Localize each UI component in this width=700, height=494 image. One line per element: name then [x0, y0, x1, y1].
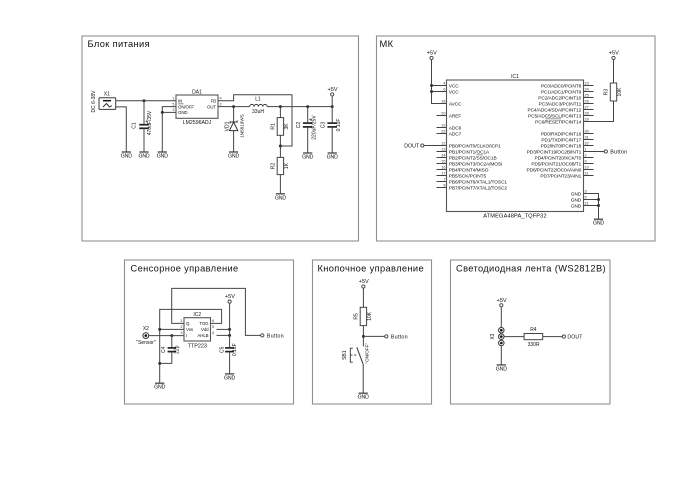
svg-text:220uF/25V: 220uF/25V [311, 115, 317, 140]
IC1 pin 27 PC4/ADC4/SDA/PCINT12 [527, 105, 593, 113]
svg-text:18: 18 [441, 99, 445, 103]
svg-text:6: 6 [443, 87, 445, 91]
svg-text:TTP223: TTP223 [188, 343, 207, 349]
IC1 pin 31 PD1/TXD/PCINT17 [541, 135, 593, 143]
svg-text:+5V: +5V [225, 294, 235, 300]
junction FB divider [279, 145, 282, 148]
wire X3 p2-p3 [500, 339, 502, 340]
junction C4 ground [158, 362, 161, 365]
svg-text:VCC: VCC [449, 89, 459, 95]
svg-text:3: 3 [172, 108, 174, 112]
IC1 pin 23 PC0/ADC0/PCINT8 [541, 81, 594, 89]
svg-text:TOG: TOG [199, 321, 209, 326]
wire R1 to R2 [279, 135, 281, 157]
wire +5V to X3 pin1 [500, 307, 502, 328]
svg-text:GND: GND [571, 203, 582, 209]
svg-text:PC2/ADC2/PCINT10: PC2/ADC2/PCINT10 [538, 95, 581, 101]
svg-text:1: 1 [172, 97, 174, 101]
IC1 pin 9 PD5/PCINT21/OC0B/T1 [531, 159, 593, 167]
wire +5V to R3 [613, 60, 615, 83]
svg-text:25: 25 [585, 93, 589, 97]
svg-text:3: 3 [585, 189, 587, 193]
junction R1 top [279, 105, 282, 108]
junction button node [362, 335, 365, 338]
block frame: pushbutton control [313, 260, 432, 404]
svg-text:10K: 10K [617, 87, 623, 97]
wire C4 top lead [171, 336, 173, 348]
svg-text:VD1: VD1 [224, 121, 230, 131]
svg-text:+5V: +5V [427, 51, 437, 57]
svg-text:МК: МК [380, 39, 394, 49]
junction C3 top [331, 105, 334, 108]
svg-text:I: I [186, 333, 187, 338]
svg-text:ADC7: ADC7 [449, 131, 462, 137]
svg-text:6: 6 [212, 319, 214, 323]
wire R2 to ground [279, 175, 281, 194]
svg-text:+5V: +5V [497, 298, 507, 304]
IC1 pin 22 ADC7 [437, 129, 462, 137]
ground [157, 152, 168, 160]
svg-text:33uH: 33uH [252, 109, 264, 115]
svg-text:X1: X1 [104, 92, 110, 98]
svg-text:12: 12 [441, 141, 445, 145]
svg-text:2: 2 [220, 102, 222, 106]
wire GND pin5 [594, 199, 599, 201]
MCU IC1 ATMEGA48PA_TQFP32 [447, 74, 584, 220]
junction gnd pin5 [597, 198, 600, 201]
svg-text:R4: R4 [530, 327, 537, 333]
svg-text:5: 5 [212, 325, 214, 329]
svg-text:PB7/PCINT7/XTAL2/TOSC2: PB7/PCINT7/XTAL2/TOSC2 [449, 185, 508, 191]
svg-text:+5V: +5V [359, 279, 369, 285]
svg-text:PC6/RESET/PCINT14: PC6/RESET/PCINT14 [535, 119, 581, 125]
ground [496, 365, 507, 373]
svg-text:29: 29 [585, 117, 589, 121]
IC1 pin 20 AREF [437, 111, 462, 119]
wire to VCC pin6 [432, 91, 437, 93]
svg-text:PB2/PCINT2/SS/OC1B: PB2/PCINT2/SS/OC1B [449, 155, 497, 161]
capacitor C4 body [161, 345, 181, 354]
svg-text:4: 4 [443, 81, 445, 85]
wire X1 pin1 to DA1 IN [116, 100, 176, 102]
svg-text:R3: R3 [604, 89, 610, 96]
wire DOUT to PB0 [424, 145, 437, 147]
IC1 pin 11 PD7/PCINT23/AIN1 [540, 171, 593, 179]
junction DA1 gnd rail [161, 111, 164, 114]
svg-text:3: 3 [180, 331, 182, 335]
svg-text:GND: GND [121, 154, 132, 160]
svg-text:PD3/PCINT19/OC2B/INT1: PD3/PCINT19/OC2B/INT1 [527, 149, 582, 155]
svg-text:DOUT: DOUT [404, 144, 420, 150]
svg-text:GND: GND [275, 195, 286, 201]
svg-text:AREF: AREF [449, 113, 462, 119]
svg-text:+5V: +5V [327, 87, 337, 93]
svg-text:32: 32 [585, 141, 589, 145]
IC1 pin 13 PB1/PCINT1/OC1A [437, 147, 491, 155]
svg-text:GND: GND [571, 191, 582, 197]
capacitor C3 body [321, 119, 342, 132]
svg-text:PB5/SCK/PCINT5: PB5/SCK/PCINT5 [449, 173, 487, 179]
wire DA1 ON/OFF to ground rail [162, 107, 176, 152]
block frame: touch control [125, 260, 294, 404]
svg-text:5: 5 [172, 102, 174, 106]
IC1 pin 8 PB7/PCINT7/XTAL2/TOSC2 [437, 183, 508, 191]
svg-text:1K: 1K [284, 162, 290, 169]
+5V button block [359, 279, 369, 288]
wire R5 to switch [362, 326, 364, 347]
wire R4 to DOUT [543, 336, 563, 338]
IC1 pin 18 AVCC [437, 99, 463, 107]
resistor R3 body [604, 83, 623, 101]
+5V rail MCU right [609, 51, 619, 60]
ground [593, 219, 604, 227]
svg-text:10: 10 [585, 165, 589, 169]
svg-text:15: 15 [441, 159, 445, 163]
wire +5V to C3 [331, 96, 333, 122]
svg-text:10K: 10K [367, 311, 373, 321]
ground [138, 152, 149, 160]
junction C4 top [170, 334, 173, 337]
terminal Button touch [261, 334, 264, 337]
junction gnd pin21 [597, 204, 600, 207]
svg-text:1N5819WS: 1N5819WS [240, 114, 245, 138]
svg-text:IC1: IC1 [511, 74, 519, 80]
wire C1 bottom to ground [143, 129, 145, 152]
IC1 pin 12 PB0/PCINT0/CLKO/ICP1 [437, 141, 502, 149]
junction AHLB [228, 334, 231, 337]
IC1 pin 4 VCC [437, 81, 460, 89]
svg-text:22p: 22p [174, 345, 180, 354]
wire X2 to I pin [149, 335, 184, 337]
svg-text:26: 26 [585, 99, 589, 103]
IC1 pin 2 PD4/PCINT20/XCK/T0 [534, 153, 593, 161]
svg-text:11: 11 [585, 171, 589, 175]
capacitor C2 body [296, 115, 317, 140]
wire AHLB to +5V rail [217, 334, 230, 336]
svg-text:19: 19 [441, 123, 445, 127]
terminal Button block4 [385, 335, 388, 338]
svg-text:PB6/PCINT6/XTAL1/TOSC1: PB6/PCINT6/XTAL1/TOSC1 [449, 179, 508, 185]
svg-text:IN: IN [178, 98, 182, 103]
svg-text:C1: C1 [132, 122, 138, 129]
svg-text:AHLB: AHLB [197, 333, 208, 338]
ground [327, 153, 338, 161]
junction Vss rail [158, 328, 161, 331]
wire R3 to RESET pin [594, 101, 614, 122]
IC1 pin 25 PC2/ADC2/PCINT10 [538, 93, 593, 101]
svg-text:GND: GND [327, 155, 338, 161]
svg-text:1: 1 [180, 319, 182, 323]
svg-text:2: 2 [585, 153, 587, 157]
svg-text:ATMEGA48PA_TQFP32: ATMEGA48PA_TQFP32 [483, 214, 546, 220]
svg-text:3K: 3K [284, 123, 290, 130]
wire Vdd to +5V rail [217, 328, 230, 330]
svg-text:Vss: Vss [186, 327, 194, 332]
junction Vdd [228, 328, 231, 331]
svg-text:31: 31 [585, 135, 589, 139]
svg-text:R2: R2 [271, 163, 277, 170]
svg-text:PD2/INT0/PCINT18: PD2/INT0/PCINT18 [541, 143, 582, 149]
wire DA1 OUT to L1 [218, 106, 250, 108]
svg-text:+5V: +5V [609, 51, 619, 57]
svg-text:ON/OFF: ON/OFF [178, 104, 194, 109]
+5V LED block [497, 298, 507, 307]
wire X1 pin2 to ground [116, 107, 127, 152]
capacitor C1 body [132, 110, 154, 135]
diode VD1 1N5819WS [224, 107, 244, 152]
svg-text:PC1/ADC1/PCINT9: PC1/ADC1/PCINT9 [541, 89, 582, 95]
IC1 pin 14 PB2/PCINT2/SS/OC1B [437, 153, 497, 161]
wire X3 pin3 to ground [500, 346, 502, 365]
ground [358, 393, 369, 401]
wire GND pin21 [594, 205, 599, 207]
connector X1 DC jack [91, 90, 116, 113]
svg-text:GND: GND [228, 154, 239, 160]
IC1 pin 5 GND [571, 195, 594, 203]
IC1 pin 30 PD0/RXD/PCINT16 [541, 129, 594, 137]
svg-text:330R: 330R [528, 342, 540, 348]
wire C2 bottom [307, 128, 309, 153]
voltage regulator DA1 LM2596ADJ [172, 90, 221, 127]
touch IC2 TTP223 [180, 312, 214, 350]
wire +5V to AVCC [432, 60, 447, 104]
svg-text:PB1/PCINT1/OC1A: PB1/PCINT1/OC1A [449, 149, 490, 155]
svg-text:Button: Button [610, 150, 627, 156]
svg-text:C3: C3 [321, 122, 327, 129]
svg-text:R1: R1 [271, 123, 277, 130]
svg-text:R5: R5 [354, 313, 360, 320]
svg-text:4: 4 [212, 331, 214, 335]
wire to VCC pin4 [432, 85, 437, 87]
IC1 pin 15 PB3/PCINT3/OC2A/MOSI [437, 159, 503, 167]
svg-text:0.1uF: 0.1uF [232, 343, 238, 356]
wire X3 pin2 to R4 [504, 336, 524, 338]
inductor L1 33uH [250, 97, 268, 116]
wire Vss [160, 328, 184, 330]
resistor R4 330R [524, 327, 543, 348]
svg-text:PC3/ADC3/PCINT11: PC3/ADC3/PCINT11 [539, 101, 582, 107]
svg-text:GND: GND [224, 375, 235, 381]
svg-text:GND: GND [178, 110, 187, 115]
svg-text:7: 7 [443, 177, 445, 181]
IC1 pin 17 PB5/SCK/PCINT5 [437, 171, 487, 179]
block frame: MCU [377, 36, 656, 241]
resistor R1 body [271, 118, 290, 136]
svg-text:GND: GND [496, 366, 507, 372]
IC1 pin 26 PC3/ADC3/PCINT11 [539, 99, 594, 107]
svg-text:14: 14 [441, 153, 445, 157]
svg-text:PD0/RXD/PCINT16: PD0/RXD/PCINT16 [541, 131, 582, 137]
IC1 pin 16 PB4/PCINT4/MISO [437, 165, 489, 173]
wire Q to Button loop [172, 288, 261, 335]
block frame: LED strip [451, 260, 611, 404]
wire to Button terminal [363, 335, 384, 337]
wire TOG to ground rail [160, 309, 222, 383]
wire C4 bottom to rail [160, 352, 172, 363]
svg-text:C5: C5 [220, 346, 226, 353]
IC1 pin 29 PC6/RESET/PCINT14 [535, 117, 593, 125]
IC1 pin 32 PD2/INT0/PCINT18 [541, 141, 594, 149]
wire X3 p1-p2 [500, 333, 502, 334]
svg-text:470uF/35V: 470uF/35V [147, 110, 153, 135]
svg-text:GND: GND [302, 155, 313, 161]
svg-text:ADC6: ADC6 [449, 125, 462, 131]
wire GND pin3 rail [594, 194, 599, 220]
svg-text:X2: X2 [143, 326, 149, 332]
junction VD1 top [232, 105, 235, 108]
svg-text:GND: GND [571, 197, 582, 203]
wire L1 to output rail [267, 106, 332, 108]
svg-text:DC 6-38V: DC 6-38V [91, 90, 97, 113]
wire C5 to ground [229, 352, 231, 374]
junction VCC pin4 [430, 84, 433, 87]
svg-text:20: 20 [441, 111, 445, 115]
IC1 pin 7 PB6/PCINT6/XTAL1/TOSC1 [437, 177, 508, 185]
svg-text:PC0/ADC0/PCINT8: PC0/ADC0/PCINT8 [541, 83, 582, 89]
ground [302, 153, 313, 161]
svg-text:OUT: OUT [207, 104, 216, 109]
svg-text:"Sensor": "Sensor" [136, 340, 156, 346]
svg-text:GND: GND [593, 221, 604, 227]
svg-text:PD5/PCINT21/OC0B/T1: PD5/PCINT21/OC0B/T1 [531, 161, 581, 167]
svg-text:FB: FB [211, 98, 217, 103]
capacitor C5 body [220, 343, 239, 356]
svg-text:PC5/ADC5/SCL/PCINT13: PC5/ADC5/SCL/PCINT13 [528, 113, 582, 119]
switch SB1 ON/OFF [342, 343, 369, 364]
ground [228, 152, 239, 160]
svg-text:X3: X3 [490, 333, 496, 339]
svg-text:PD6/PCINT22/OC0A/AIN0: PD6/PCINT22/OC0A/AIN0 [527, 167, 582, 173]
svg-text:AVCC: AVCC [449, 101, 462, 107]
svg-text:PD1/TXD/PCINT17: PD1/TXD/PCINT17 [541, 137, 581, 143]
wire +5V to R5 [362, 288, 364, 307]
svg-text:SB1: SB1 [342, 350, 348, 360]
junction C1 top [143, 99, 146, 102]
svg-text:Кнопочное управление: Кнопочное управление [318, 264, 424, 274]
junction VCC pin6 [430, 90, 433, 93]
svg-text:PB3/PCINT3/OC2A/MOSI: PB3/PCINT3/OC2A/MOSI [449, 161, 502, 167]
svg-text:28: 28 [585, 111, 589, 115]
wire C1 top [143, 101, 145, 124]
svg-text:PB0/PCINT0/CLKO/ICP1: PB0/PCINT0/CLKO/ICP1 [449, 143, 501, 149]
IC1 pin 10 PD6/PCINT22/OC0A/AIN0 [527, 165, 594, 173]
svg-text:DA1: DA1 [192, 90, 202, 96]
+5V output terminal [327, 87, 337, 96]
+5V touch block [225, 294, 235, 303]
wire switch to ground [362, 364, 364, 393]
resistor R2 body [271, 157, 290, 174]
svg-text:1: 1 [585, 147, 587, 151]
svg-text:4: 4 [220, 97, 222, 101]
svg-text:C2: C2 [296, 122, 302, 129]
svg-text:9: 9 [585, 159, 587, 163]
connector X2 sensor pad [136, 326, 156, 346]
IC1 pin 24 PC1/ADC1/PCINT9 [541, 87, 594, 95]
svg-text:PB4/PCINT4/MISO: PB4/PCINT4/MISO [449, 167, 489, 173]
svg-text:22: 22 [441, 129, 445, 133]
IC1 pin 21 GND [571, 201, 594, 209]
svg-text:2: 2 [180, 325, 182, 329]
connector X3 (3-pin) [490, 327, 504, 345]
terminal DOUT LED [562, 335, 565, 338]
svg-text:VCC: VCC [449, 83, 459, 89]
+5V rail MCU left [427, 51, 437, 60]
wire C3 bottom [331, 128, 333, 153]
svg-text:0.1uF: 0.1uF [336, 119, 342, 132]
svg-text:24: 24 [585, 87, 589, 91]
resistor R5 body [354, 307, 373, 325]
svg-text:30: 30 [585, 129, 589, 133]
svg-text:PD7/PCINT23/AIN1: PD7/PCINT23/AIN1 [540, 173, 581, 179]
svg-text:GND: GND [157, 154, 168, 160]
svg-text:GND: GND [154, 385, 165, 391]
svg-text:8: 8 [443, 183, 445, 187]
svg-text:17: 17 [441, 171, 445, 175]
wire DA1 GND pin [162, 111, 176, 113]
svg-text:Светодиодная лента (WS2812B): Светодиодная лента (WS2812B) [456, 264, 606, 274]
svg-text:Button: Button [267, 334, 284, 340]
ground [121, 152, 132, 160]
svg-text:GND: GND [138, 154, 149, 160]
IC1 pin 28 PC5/ADC5/SCL/PCINT13 [528, 111, 593, 119]
terminal Button MCU [604, 150, 607, 153]
svg-text:"ON/OFF": "ON/OFF" [365, 343, 370, 364]
svg-text:C4: C4 [161, 346, 167, 353]
svg-text:DOUT: DOUT [567, 335, 583, 341]
svg-text:PC4/ADC4/SDA/PCINT12: PC4/ADC4/SDA/PCINT12 [527, 107, 581, 113]
terminal DOUT MCU [421, 144, 424, 147]
wire DA1 FB to divider [218, 95, 292, 146]
svg-text:13: 13 [441, 147, 445, 151]
svg-text:GND: GND [358, 395, 369, 401]
ground [275, 194, 286, 202]
IC1 pin 6 VCC [437, 87, 460, 95]
svg-text:Vdd: Vdd [201, 327, 209, 332]
svg-text:LM2596ADJ: LM2596ADJ [183, 120, 212, 126]
svg-text:PD4/PCINT20/XCK/T0: PD4/PCINT20/XCK/T0 [534, 155, 581, 161]
svg-text:16: 16 [441, 165, 445, 169]
svg-text:IC2: IC2 [193, 312, 201, 318]
svg-text:Button: Button [391, 335, 408, 341]
svg-text:Блок питания: Блок питания [88, 39, 150, 49]
wire +5V rail down to C5 [229, 303, 231, 347]
ground [224, 374, 235, 382]
svg-text:L1: L1 [255, 97, 261, 103]
wire PD3 to Button terminal [594, 151, 605, 153]
svg-text:21: 21 [585, 201, 589, 205]
svg-text:23: 23 [585, 81, 589, 85]
block frame: power supply [82, 36, 359, 241]
wire C2 top [307, 107, 309, 123]
junction C2 top [306, 105, 309, 108]
IC1 pin 1 PD3/PCINT19/OC2B/INT1 [527, 147, 594, 155]
IC1 pin 19 ADC6 [437, 123, 462, 131]
ground [154, 383, 165, 391]
svg-text:27: 27 [585, 105, 589, 109]
svg-text:Сенсорное управление: Сенсорное управление [131, 264, 239, 274]
wire R1 top lead [279, 107, 281, 118]
IC1 pin 3 GND [571, 189, 594, 197]
svg-text:5: 5 [585, 195, 587, 199]
